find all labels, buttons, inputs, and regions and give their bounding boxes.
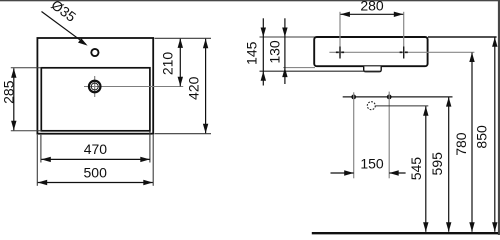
drain outer circle bbox=[89, 81, 101, 93]
dim 420 top extension bbox=[155, 37, 212, 39]
svg-text:500: 500 bbox=[84, 164, 108, 180]
svg-text:595: 595 bbox=[429, 152, 445, 176]
dim 210 line bbox=[179, 38, 181, 86]
top scan border bbox=[0, 0, 500, 1]
siphon dashed circle bbox=[367, 102, 375, 110]
fixing hole ticks bbox=[336, 51, 339, 53]
drain notch bbox=[364, 66, 382, 71]
svg-text:130: 130 bbox=[267, 40, 283, 64]
floor line bbox=[312, 232, 498, 234]
siphon line to 545 bbox=[376, 105, 429, 107]
top extension left of slab bbox=[260, 36, 316, 38]
svg-text:420: 420 bbox=[186, 76, 202, 100]
basin outer rect (top view) bbox=[37, 38, 153, 134]
dim 500 line bbox=[38, 182, 153, 184]
dim 470 extensions bbox=[40, 135, 42, 163]
dim 150 (outside arrows) bbox=[331, 172, 354, 174]
drain crosshair bbox=[84, 86, 183, 88]
dim 130 line (outside arrows) bbox=[284, 18, 286, 84]
svg-text:280: 280 bbox=[360, 0, 384, 14]
dim 595 line bbox=[448, 97, 450, 232]
svg-text:470: 470 bbox=[84, 141, 108, 157]
dim 420 line bbox=[205, 39, 207, 134]
dim 285 extension bottom bbox=[11, 130, 42, 132]
dim 280 extensions bbox=[339, 12, 341, 57]
top extension right of slab to 850 bbox=[428, 36, 497, 38]
svg-text:150: 150 bbox=[360, 156, 384, 172]
dim 850 line bbox=[494, 37, 496, 232]
fixing dot left bbox=[351, 95, 356, 100]
right scan border bbox=[498, 0, 500, 235]
dim 500 extensions bbox=[36, 135, 38, 186]
drain inner circle bbox=[91, 83, 98, 90]
svg-text:210: 210 bbox=[160, 52, 176, 76]
fixing dot right bbox=[387, 95, 392, 100]
svg-text:850: 850 bbox=[473, 125, 489, 149]
dim 285 line bbox=[13, 68, 15, 130]
dim 145 line (outside arrows) bbox=[262, 18, 264, 85]
dim 420 bottom extension bbox=[155, 133, 212, 135]
faucet hole Ø35 bbox=[91, 49, 98, 56]
dim 545 line bbox=[425, 106, 427, 232]
dim 280 line bbox=[340, 13, 403, 15]
dot verticals bbox=[353, 92, 355, 178]
svg-text:145: 145 bbox=[244, 41, 260, 65]
basin inner rect bbox=[41, 68, 150, 131]
hole centerline to 780 bbox=[329, 51, 474, 53]
svg-text:780: 780 bbox=[453, 132, 469, 156]
130 bottom extension bbox=[283, 67, 315, 69]
dim 285 extension top bbox=[11, 67, 42, 69]
slab (side profile) bbox=[314, 37, 427, 66]
dim 780 line bbox=[471, 53, 473, 232]
svg-text:285: 285 bbox=[1, 80, 17, 104]
fixing dots line bbox=[343, 96, 453, 98]
leader line Ø35 bbox=[42, 12, 86, 45]
svg-text:545: 545 bbox=[408, 157, 424, 181]
dim 470 line bbox=[41, 158, 150, 160]
145 bottom extension bbox=[260, 70, 381, 72]
